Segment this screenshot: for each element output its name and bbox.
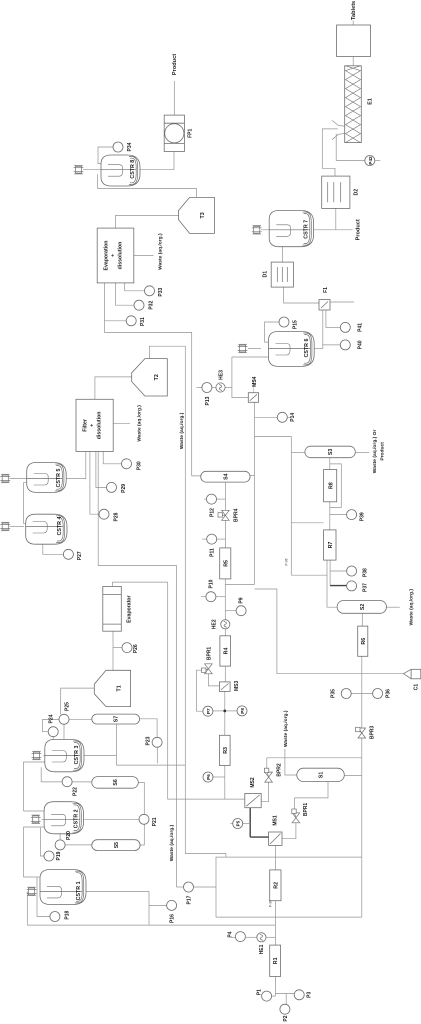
svg-text:HE3: HE3	[219, 370, 225, 380]
svg-text:Waste (aq./org.): Waste (aq./org.)	[409, 589, 415, 626]
svg-text:MS1: MS1	[273, 815, 279, 826]
svg-text:BPR3: BPR3	[370, 726, 376, 740]
svg-text:P28: P28	[114, 512, 120, 521]
svg-text:+: +	[111, 254, 117, 257]
svg-text:S6: S6	[113, 779, 119, 785]
svg-text:CSTR 6: CSTR 6	[304, 339, 310, 358]
svg-text:P17: P17	[187, 895, 193, 904]
svg-text:R6: R6	[361, 638, 367, 645]
svg-text:P16: P16	[170, 914, 176, 923]
svg-text:P-36: P-36	[285, 558, 289, 565]
svg-text:BPR4: BPR4	[234, 508, 240, 522]
svg-text:P6: P6	[206, 774, 211, 780]
svg-text:S1: S1	[319, 772, 325, 778]
svg-text:Waste (aq./org.): Waste (aq./org.)	[158, 233, 164, 270]
svg-text:P33: P33	[158, 287, 164, 296]
svg-text:P12: P12	[210, 508, 216, 517]
svg-text:P4: P4	[228, 931, 234, 937]
svg-text:P23: P23	[146, 736, 152, 745]
svg-text:P2: P2	[283, 1015, 289, 1021]
svg-text:Tablets: Tablets	[351, 1, 357, 20]
svg-text:MS2: MS2	[250, 777, 256, 788]
svg-text:CSTR 3: CSTR 3	[74, 746, 80, 765]
svg-text:P32: P32	[149, 301, 155, 310]
svg-text:R2: R2	[273, 882, 279, 889]
svg-text:P14: P14	[290, 413, 296, 422]
svg-text:MS3: MS3	[234, 681, 240, 692]
svg-text:S7: S7	[114, 716, 120, 722]
svg-text:P19: P19	[56, 851, 62, 860]
svg-text:P5: P5	[236, 820, 241, 826]
svg-text:Waste (aq./org.) Or: Waste (aq./org.) Or	[372, 430, 378, 474]
svg-text:R7: R7	[328, 542, 334, 549]
svg-text:+: +	[90, 424, 96, 427]
svg-text:P15: P15	[293, 320, 299, 329]
svg-text:P39: P39	[360, 512, 366, 521]
svg-text:P7: P7	[206, 708, 211, 714]
svg-text:CSTR 2: CSTR 2	[74, 809, 80, 828]
svg-text:BPR1: BPR1	[303, 803, 309, 817]
svg-text:P37: P37	[363, 583, 369, 592]
svg-text:P26: P26	[133, 644, 139, 653]
svg-text:P20: P20	[66, 831, 72, 840]
svg-text:Waste (aq./org.): Waste (aq./org.)	[179, 412, 185, 449]
svg-text:R5: R5	[223, 560, 229, 567]
svg-text:P-36: P-36	[269, 900, 273, 907]
svg-text:R4: R4	[223, 648, 229, 655]
svg-text:dissolution: dissolution	[97, 412, 103, 440]
svg-text:P34: P34	[127, 142, 133, 151]
svg-text:R1: R1	[273, 957, 279, 964]
svg-text:Waste (aq./org.): Waste (aq./org.)	[283, 710, 289, 747]
svg-text:P22: P22	[73, 787, 79, 796]
svg-text:HE2: HE2	[212, 619, 218, 629]
svg-text:Evaporator: Evaporator	[127, 596, 133, 623]
svg-text:E1: E1	[368, 98, 374, 105]
svg-text:D1: D1	[263, 271, 269, 278]
svg-text:R8: R8	[328, 482, 334, 489]
svg-text:P11: P11	[210, 548, 216, 557]
svg-text:P13: P13	[205, 396, 211, 405]
svg-text:dissolution: dissolution	[118, 242, 124, 270]
svg-text:P36: P36	[386, 689, 392, 698]
svg-text:S4: S4	[223, 473, 229, 479]
svg-text:CSTR 7: CSTR 7	[304, 220, 310, 239]
svg-text:MS4: MS4	[252, 376, 258, 387]
svg-text:P27: P27	[77, 551, 83, 560]
svg-text:P25: P25	[65, 702, 71, 711]
svg-text:Evaporation: Evaporation	[104, 241, 110, 271]
svg-text:T1: T1	[116, 685, 122, 691]
svg-text:R3: R3	[223, 747, 229, 754]
svg-text:CSTR 4: CSTR 4	[57, 517, 63, 536]
svg-text:Product: Product	[172, 54, 178, 75]
svg-text:S3: S3	[328, 449, 334, 455]
svg-text:P8: P8	[240, 708, 245, 714]
svg-text:F1: F1	[323, 287, 329, 293]
svg-text:P9: P9	[239, 597, 245, 603]
svg-text:T3: T3	[200, 212, 206, 218]
svg-text:CSTR 1: CSTR 1	[76, 881, 82, 900]
svg-text:P21: P21	[152, 817, 158, 826]
svg-text:C1: C1	[414, 684, 420, 691]
svg-text:P10: P10	[209, 579, 215, 588]
svg-text:P35: P35	[331, 689, 337, 698]
svg-text:P29: P29	[121, 484, 127, 493]
svg-text:P38: P38	[363, 568, 369, 577]
svg-text:Waste (aq./org.): Waste (aq./org.)	[169, 824, 175, 861]
svg-text:Filter: Filter	[83, 419, 89, 432]
svg-text:P30: P30	[137, 461, 143, 470]
svg-text:Product: Product	[356, 219, 362, 240]
svg-text:FP1: FP1	[188, 128, 194, 137]
svg-text:P3: P3	[307, 992, 313, 998]
svg-text:Product: Product	[380, 442, 386, 461]
svg-text:P24: P24	[49, 714, 55, 723]
svg-text:P41: P41	[358, 323, 364, 332]
svg-text:P40: P40	[358, 340, 364, 349]
svg-text:P18: P18	[65, 910, 71, 919]
svg-text:HE1: HE1	[259, 944, 265, 954]
svg-text:P42: P42	[368, 156, 373, 165]
svg-text:T2: T2	[154, 374, 160, 380]
svg-text:BPR2: BPR2	[277, 763, 283, 777]
svg-text:CSTR 5: CSTR 5	[56, 469, 62, 488]
svg-text:Waste (aq./org.): Waste (aq./org.)	[137, 405, 143, 442]
svg-text:CSTR 8: CSTR 8	[130, 160, 136, 179]
svg-text:S2: S2	[360, 604, 366, 610]
svg-text:P1: P1	[257, 989, 263, 995]
svg-text:S5: S5	[114, 842, 120, 848]
svg-text:BPR1: BPR1	[206, 647, 212, 661]
svg-text:D2: D2	[354, 189, 360, 196]
svg-text:P31: P31	[140, 317, 146, 326]
